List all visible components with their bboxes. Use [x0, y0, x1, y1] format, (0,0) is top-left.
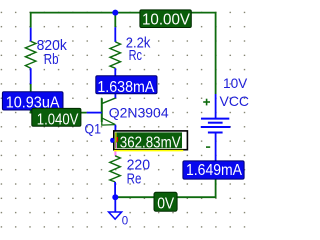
resistor Rc — [114, 27, 116, 42]
battery V1 VCC — [201, 94, 231, 133]
base pin wire — [87, 112, 102, 114]
svg-text:362.83mV: 362.83mV — [120, 135, 181, 152]
svg-text:10.00V: 10.00V — [142, 12, 190, 29]
svg-text:VCC: VCC — [220, 93, 250, 109]
resistor Re — [110, 156, 121, 182]
wire stub top of Rc — [114, 13, 116, 28]
bias display 10.00V — [140, 10, 191, 29]
battery plus sign — [203, 99, 210, 106]
node junction dot bottom — [112, 194, 118, 200]
wire top from Rb corner to VCC corner — [31, 13, 216, 94]
current display 1.638mA — [96, 76, 157, 96]
wire bottom from emitter junction to right corner — [115, 179, 215, 197]
selected bias display 362.83mV — [110, 131, 187, 152]
svg-text:0V: 0V — [157, 196, 174, 213]
emitter pin stub — [114, 125, 116, 132]
transistor Q1 Q2N3904 — [102, 98, 116, 125]
collector pin stub — [114, 92, 116, 98]
wire emitter highlighted segment (magenta) — [114, 148, 116, 156]
svg-text:Q1: Q1 — [85, 121, 102, 137]
wire left column below Rb to base corner — [31, 84, 87, 113]
svg-text:Q2N3904: Q2N3904 — [109, 104, 169, 120]
battery minus sign — [206, 146, 210, 148]
resistor Rb — [30, 28, 32, 42]
grid dots — [0, 0, 254, 233]
node junction dot top — [112, 10, 118, 16]
bias display 1.040V — [32, 108, 81, 128]
svg-text:Rb: Rb — [44, 51, 59, 68]
svg-text:Rc: Rc — [129, 47, 143, 64]
wire right column battery minus to bottom — [215, 133, 217, 162]
svg-text:1.040V: 1.040V — [37, 112, 79, 129]
svg-text:Re: Re — [127, 170, 142, 187]
svg-text:10V: 10V — [223, 75, 248, 91]
current display 1.649mA — [183, 161, 244, 179]
svg-text:1.649mA: 1.649mA — [186, 162, 242, 179]
svg-text:1.638mA: 1.638mA — [97, 79, 154, 96]
current display 10.93uA — [2, 92, 63, 112]
bias display 0V — [154, 192, 177, 212]
ground — [109, 197, 122, 219]
svg-text:0: 0 — [122, 215, 128, 227]
